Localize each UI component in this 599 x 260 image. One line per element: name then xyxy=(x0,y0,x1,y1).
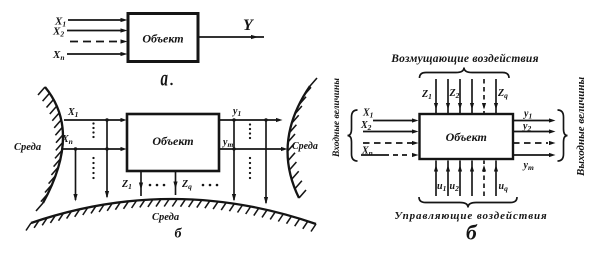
wire drop from X1 to ground (б) xyxy=(106,120,108,197)
svg-text:Объект: Объект xyxy=(142,32,183,46)
environment ground (б) xyxy=(31,199,316,224)
brace over disturbance arrows xyxy=(420,68,510,79)
wire X1 input (в) xyxy=(373,120,412,122)
svg-text:Среда: Среда xyxy=(14,142,41,153)
wire control arrow 4 (в) xyxy=(471,161,473,197)
wire control arrow 6 (в) xyxy=(495,161,497,197)
wire dashed ellipsis input (в) xyxy=(363,142,412,144)
wire control arrow 3 (в) xyxy=(459,161,461,197)
wire Z1 drop (б) xyxy=(140,171,142,196)
object block (diagram в) xyxy=(420,114,514,159)
wire X2 input (a) xyxy=(67,30,121,32)
ellipsis dots between y1 ym (б) xyxy=(249,123,251,139)
brace left inputs (в) xyxy=(348,110,358,161)
svg-text:Среда: Среда xyxy=(292,141,318,152)
wire y1 output (в) xyxy=(513,120,549,122)
ellipsis dots between Z1 Zq (б) xyxy=(149,184,166,187)
environment wall left (б) xyxy=(43,87,63,203)
wire control arrow 1 (в) xyxy=(435,161,437,197)
wire Xn input (в) xyxy=(361,154,389,156)
wire Xn input (a) xyxy=(67,53,121,55)
svg-text:б: б xyxy=(466,221,478,245)
wire disturbance arrow 1 (в) xyxy=(435,79,437,113)
wire disturbance arrow 2 (в) xyxy=(447,79,449,113)
wire Y output (a) xyxy=(198,36,264,38)
wire drop from Xn to ground (б) xyxy=(75,149,77,200)
wire dashed ellipsis output (в) xyxy=(513,142,548,144)
wire drop right inner to ground (б) xyxy=(233,120,235,200)
object block (diagram a) xyxy=(128,14,198,62)
environment wall right (б) xyxy=(288,86,310,198)
svg-text:Объект: Объект xyxy=(446,130,487,144)
ellipsis dots right of Zq (б) xyxy=(202,184,219,187)
wire ym output (в) xyxy=(513,154,549,156)
wire control arrow 5 (в) xyxy=(483,161,485,197)
wire X1 input (a) xyxy=(68,19,121,21)
wire drop right outer to ground (б) xyxy=(265,120,267,203)
wire disturbance arrow 6 (в) xyxy=(495,79,497,113)
wire X2 input (в) xyxy=(363,131,412,133)
wire Zq drop (б) xyxy=(175,171,177,195)
wire y1 (б) xyxy=(219,119,276,121)
wire disturbance arrow 5 (в) xyxy=(483,79,485,113)
svg-text:Y: Y xyxy=(243,17,254,34)
wire X1 (б) xyxy=(64,119,121,121)
object block (diagram б) xyxy=(127,114,219,171)
svg-text:а: а xyxy=(161,66,169,91)
wire disturbance arrow 3 (в) xyxy=(459,79,461,113)
wire ym (б) xyxy=(219,148,281,150)
wire control arrow 2 (в) xyxy=(447,161,449,197)
svg-text:Выходные величины: Выходные величины xyxy=(575,76,587,177)
brace right outputs (в) xyxy=(558,110,568,161)
svg-text:Возмущающие воздействия: Возмущающие воздействия xyxy=(390,52,539,65)
svg-text:Входные величины: Входные величины xyxy=(331,78,342,158)
wire y2 output (в) xyxy=(513,131,549,133)
ellipsis dots between X1 Xn (б) xyxy=(92,122,94,138)
ellipsis dots below Xn (б) xyxy=(92,157,94,179)
wire dashed ellipsis input (a) xyxy=(70,41,119,43)
svg-text:б: б xyxy=(175,227,183,242)
brace under control arrows xyxy=(419,197,517,208)
svg-text:Объект: Объект xyxy=(152,134,193,148)
svg-text:Среда: Среда xyxy=(152,212,179,223)
ellipsis dots below ym (б) xyxy=(249,157,251,179)
wire disturbance arrow 4 (в) xyxy=(471,79,473,113)
wire Xn (б) xyxy=(62,148,121,150)
caption a xyxy=(161,66,173,91)
